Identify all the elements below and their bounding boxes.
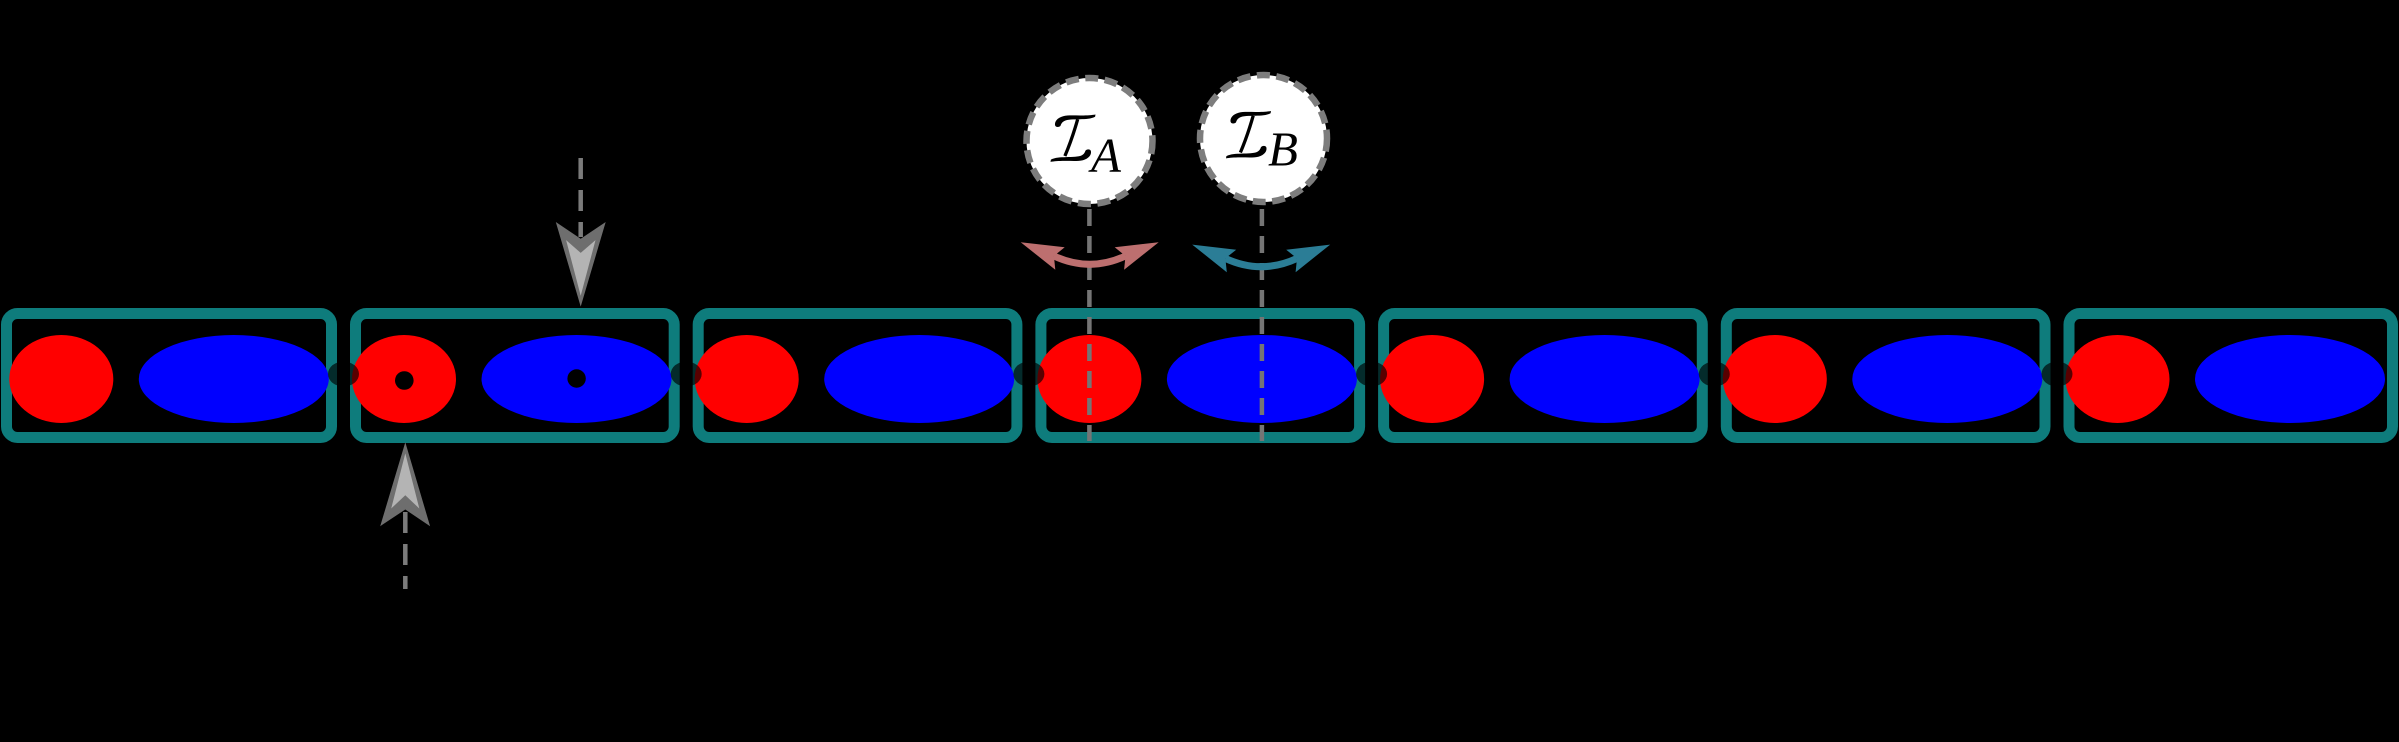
blue orbital B site, cell 3 [824,335,1014,423]
blue orbital B site, cell 6 [1852,335,2042,423]
up arrow head (inner) [391,453,419,508]
dashed inversion axis B [1260,209,1265,441]
down arrow head (inner) [566,240,595,296]
up arrow head (outer) [380,442,430,526]
red orbital A site, cell 4 [1037,335,1141,423]
blue orbital B site, cell 5 [1510,335,1700,423]
inter-cell bond connector 2 [671,362,702,387]
unit cell box 4 [1041,314,1360,438]
black dot marker on red site (cell 2) [395,371,414,390]
inter-cell bond connector 3 [1013,362,1044,387]
unit cell box 2 [356,314,675,438]
script-I glyph of label I_A [1051,115,1096,162]
dashed tail of down arrow [578,158,583,237]
unit cell box 7 [2069,314,2393,438]
svg-text:B: B [1268,122,1298,177]
blue orbital B site, cell 4 [1167,335,1357,423]
inter-cell bond connector 4 [1356,362,1387,387]
svg-text:A: A [1088,128,1122,183]
unit cell box 1 [7,314,332,438]
red orbital A site, cell 5 [1380,335,1484,423]
pink curved double arrow (inversion about A) [1021,242,1159,270]
script-I glyph of label I_B [1226,111,1271,158]
red orbital A site, cell 3 [695,335,799,423]
dashed circle for inversion center A [1027,78,1153,204]
red orbital A site, cell 2 [352,335,456,423]
inter-cell bond connector 1 [328,362,359,387]
red orbital A site, cell 7 [2066,335,2170,423]
unit cell box 5 [1384,314,1703,438]
inter-cell bond connector 6 [2042,362,2073,387]
inter-cell bond connector 5 [1699,362,1730,387]
unit cell box 6 [1726,314,2045,438]
down arrow head (outer) [556,222,606,307]
black dot marker on blue site (cell 2) [567,369,585,387]
unit cell box 3 [698,314,1017,438]
red orbital A site, cell 1 [9,335,113,423]
blue orbital B site, cell 1 [139,335,329,423]
dashed inversion axis A [1087,209,1092,441]
dashed circle for inversion center B [1200,75,1327,202]
dashed tail of up arrow [403,512,408,589]
blue orbital B site, cell 7 [2195,335,2385,423]
blue orbital B site, cell 2 [482,335,672,423]
red orbital A site, cell 6 [1723,335,1827,423]
teal curved double arrow (inversion about B) [1192,245,1330,273]
